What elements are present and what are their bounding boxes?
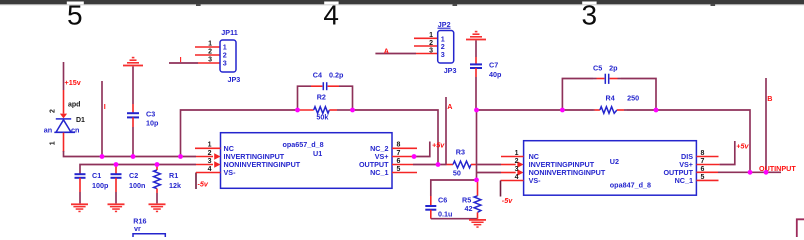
svg-text:2: 2 xyxy=(208,48,212,55)
svg-text:8: 8 xyxy=(397,142,401,149)
svg-text:2: 2 xyxy=(515,158,519,165)
svg-text:JP3: JP3 xyxy=(228,75,241,84)
svg-text:1: 1 xyxy=(515,150,519,157)
svg-text:6: 6 xyxy=(397,158,401,165)
svg-text:R3: R3 xyxy=(456,148,465,157)
svg-text:12k: 12k xyxy=(169,181,181,190)
svg-text:D1: D1 xyxy=(76,117,85,124)
svg-text:I: I xyxy=(104,102,106,111)
svg-text:I: I xyxy=(180,55,182,64)
svg-text:250: 250 xyxy=(627,93,639,102)
svg-text:1: 1 xyxy=(50,141,57,145)
svg-text:A: A xyxy=(447,102,452,111)
svg-text:B: B xyxy=(767,94,772,103)
svg-text:-5v: -5v xyxy=(502,196,513,205)
svg-text:-5v: -5v xyxy=(198,180,209,189)
svg-text:3: 3 xyxy=(582,0,598,31)
svg-text:3: 3 xyxy=(208,56,212,63)
svg-text:C2: C2 xyxy=(129,171,138,180)
svg-text:C6: C6 xyxy=(438,196,447,205)
svg-text:10p: 10p xyxy=(146,119,159,128)
svg-text:2p: 2p xyxy=(609,63,618,72)
svg-text:+15v: +15v xyxy=(65,78,81,87)
svg-text:3: 3 xyxy=(429,47,433,54)
svg-text:NC_1: NC_1 xyxy=(675,176,693,185)
svg-text:3: 3 xyxy=(441,50,445,59)
svg-text:0.2p: 0.2p xyxy=(329,71,344,80)
svg-text:2: 2 xyxy=(50,109,57,113)
svg-text:JP11: JP11 xyxy=(221,28,237,37)
svg-text:3: 3 xyxy=(208,158,212,165)
svg-text:5: 5 xyxy=(397,166,401,173)
svg-text:C5: C5 xyxy=(593,63,602,72)
svg-text:3: 3 xyxy=(223,59,227,68)
svg-text:1: 1 xyxy=(208,142,212,149)
svg-text:R1: R1 xyxy=(169,171,178,180)
svg-text:cn: cn xyxy=(71,126,79,135)
svg-text:6: 6 xyxy=(701,166,705,173)
svg-text:4: 4 xyxy=(515,174,519,181)
svg-text:+5v: +5v xyxy=(736,141,749,150)
svg-text:U1: U1 xyxy=(313,149,322,158)
svg-text:C3: C3 xyxy=(146,109,155,118)
svg-text:opa847_d_8: opa847_d_8 xyxy=(610,181,651,190)
svg-text:VS-: VS- xyxy=(224,168,237,177)
svg-text:50: 50 xyxy=(453,168,461,177)
svg-text:4: 4 xyxy=(323,0,339,31)
svg-text:+5v: +5v xyxy=(432,140,445,149)
svg-text:VS-: VS- xyxy=(529,176,542,185)
svg-text:1: 1 xyxy=(429,32,433,39)
svg-text:NC_1: NC_1 xyxy=(370,168,388,177)
svg-text:C4: C4 xyxy=(313,71,322,80)
svg-text:R4: R4 xyxy=(606,93,615,102)
svg-text:7: 7 xyxy=(397,150,401,157)
svg-text:1: 1 xyxy=(208,40,212,47)
svg-text:JP2: JP2 xyxy=(438,20,451,29)
svg-text:R2: R2 xyxy=(317,92,326,101)
svg-text:2: 2 xyxy=(208,150,212,157)
svg-text:7: 7 xyxy=(701,158,705,165)
svg-text:A: A xyxy=(384,47,389,56)
svg-text:opa657_d_8: opa657_d_8 xyxy=(283,140,324,149)
svg-text:apd: apd xyxy=(68,101,80,108)
svg-text:5: 5 xyxy=(67,0,83,31)
svg-text:8: 8 xyxy=(701,150,705,157)
svg-text:C1: C1 xyxy=(92,171,101,180)
svg-text:42: 42 xyxy=(465,204,473,213)
svg-text:5: 5 xyxy=(701,174,705,181)
svg-text:100n: 100n xyxy=(129,181,145,190)
svg-text:an: an xyxy=(44,126,52,135)
svg-text:40p: 40p xyxy=(489,70,502,79)
svg-text:C7: C7 xyxy=(489,61,498,70)
svg-text:0.1u: 0.1u xyxy=(438,209,452,218)
svg-text:JP3: JP3 xyxy=(444,66,457,75)
svg-text:U2: U2 xyxy=(610,157,619,166)
svg-text:3: 3 xyxy=(515,166,519,173)
svg-text:50k: 50k xyxy=(316,112,328,121)
svg-text:100p: 100p xyxy=(92,181,109,190)
svg-text:2: 2 xyxy=(429,40,433,47)
svg-text:vr: vr xyxy=(134,224,141,233)
